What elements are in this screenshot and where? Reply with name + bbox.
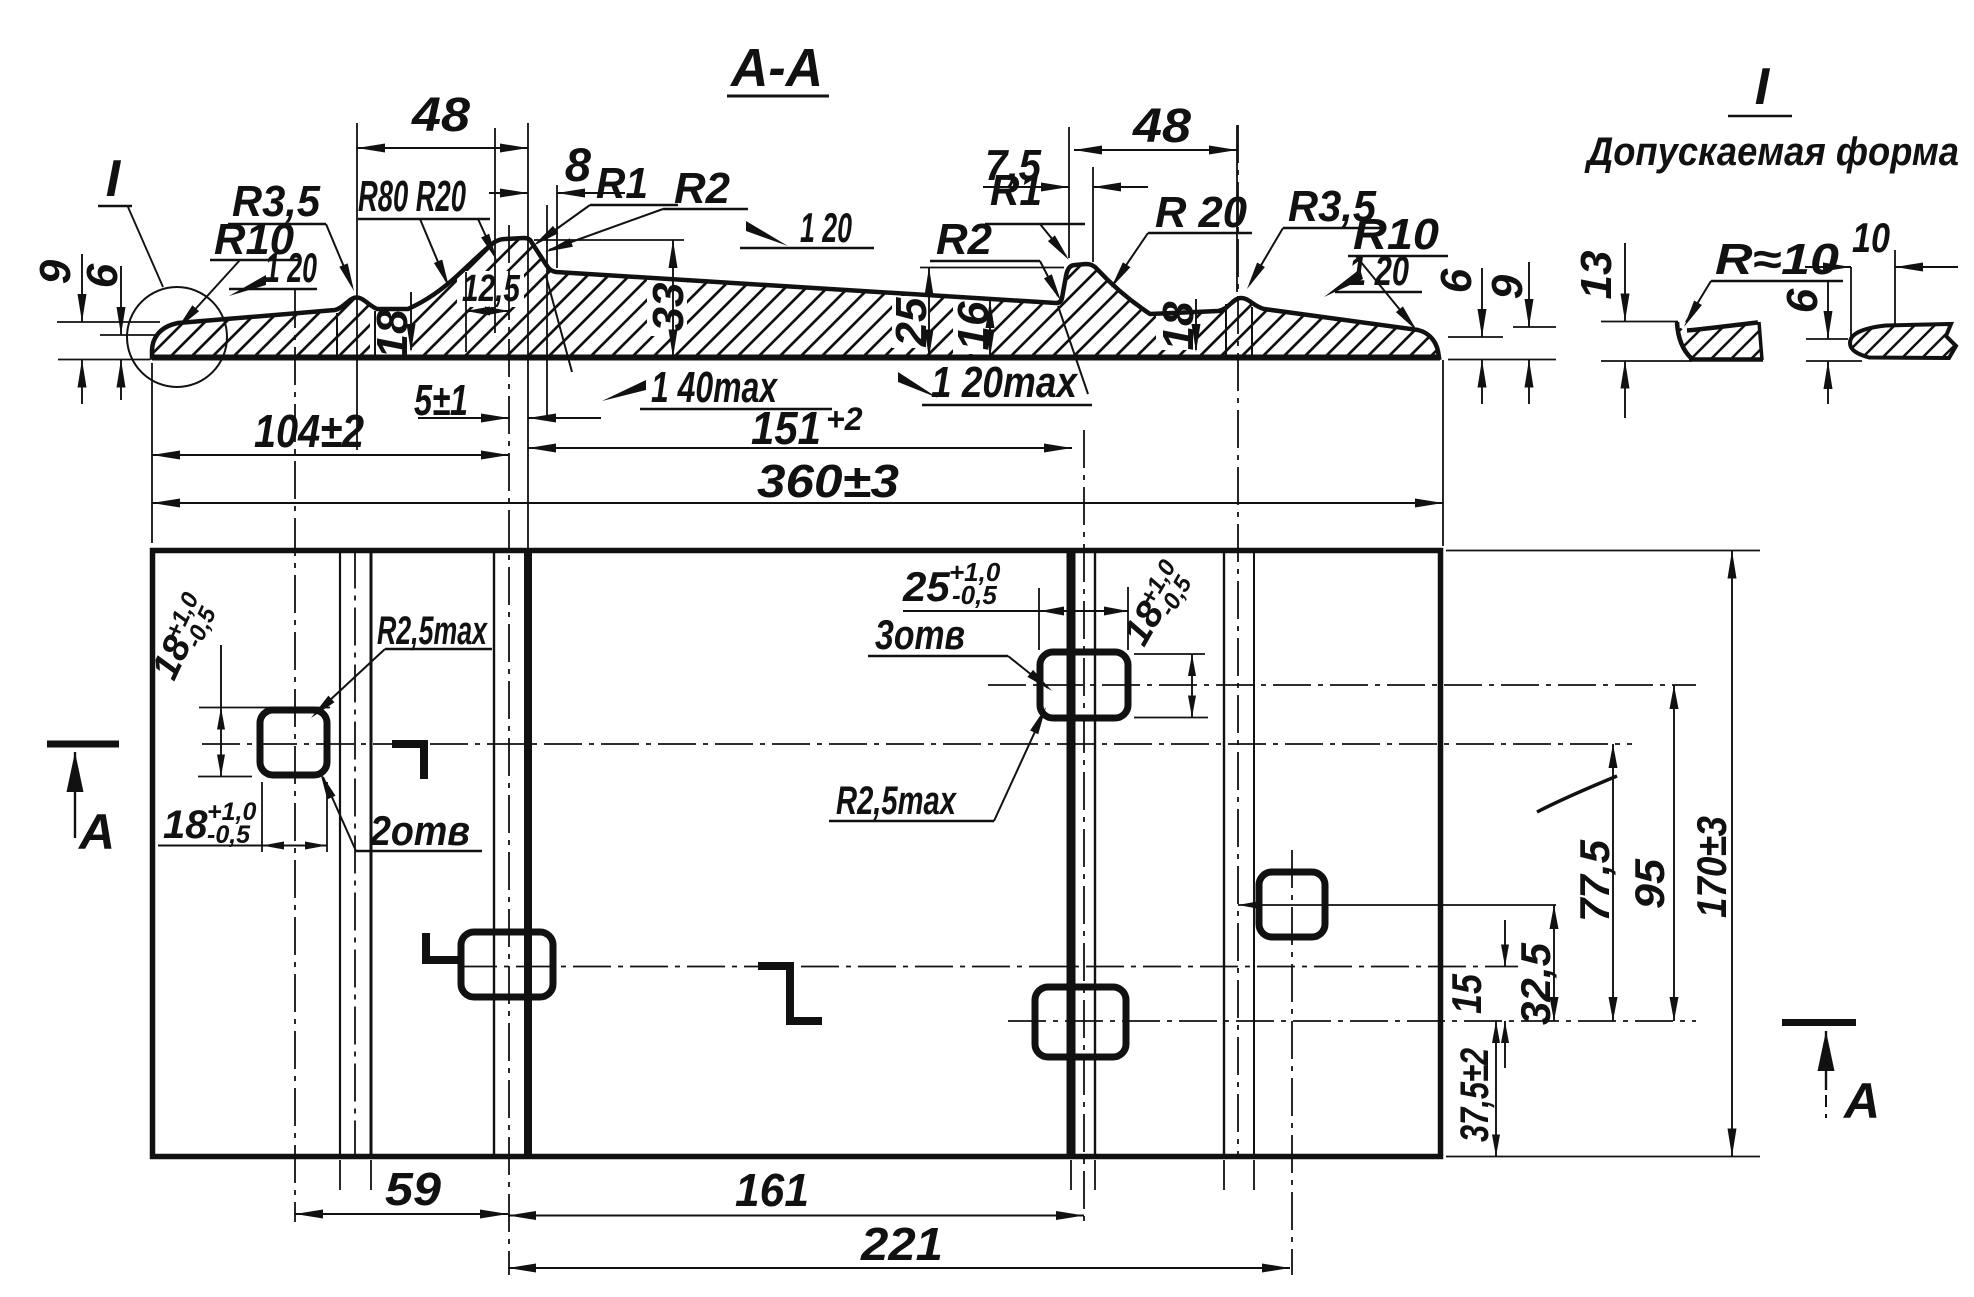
svg-text:16: 16 (949, 301, 998, 350)
dimension 18 right (1154, 299, 1203, 352)
svg-text:59: 59 (385, 1163, 441, 1215)
detail sketch 1 hatching (1610, 300, 1830, 380)
dimension 9 left (31, 254, 160, 404)
plan left bump line b (370, 551, 373, 1157)
dimension 104±2 (152, 405, 509, 460)
extension line right end (1442, 360, 1444, 546)
section groove edge lines left bump (337, 311, 375, 356)
plan left rib edge thick (524, 553, 532, 1157)
slope mark 1:20 rail seat (740, 204, 874, 251)
plan right bump centerline (1237, 125, 1239, 1157)
svg-text:6: 6 (1432, 268, 1481, 293)
svg-text:2отв: 2отв (369, 807, 470, 854)
svg-text:6: 6 (78, 263, 127, 288)
dimension 6 right (1432, 268, 1556, 404)
dimension 32,5 (1512, 905, 1559, 1025)
svg-text:-0,5: -0,5 (207, 821, 251, 849)
dimension 33 (534, 240, 693, 358)
hole B (461, 932, 553, 997)
svg-text:48: 48 (1132, 100, 1191, 153)
label R10 left (177, 215, 298, 329)
sketch1 dimension 13 (1572, 243, 1630, 418)
dimension 7,5 (983, 127, 1148, 262)
svg-text:R2,5max: R2,5max (836, 779, 957, 823)
plan right rib centerline (1083, 430, 1085, 1222)
hatch clearance boxes (370, 271, 1196, 358)
extension line crest right corner (527, 123, 529, 551)
label R2 right seat (930, 215, 1061, 301)
svg-text:13: 13 (1572, 251, 1621, 300)
section arrow A left (47, 744, 119, 860)
dimension 59 (295, 1163, 508, 1219)
section line step mark 1 (392, 744, 424, 779)
extension line crest left (494, 128, 496, 333)
dimension 8 (489, 138, 625, 268)
hole A centerline vertical (294, 290, 296, 1222)
slope mark 1:40max (546, 276, 832, 412)
sketch2 dimension 6 (1778, 280, 1862, 404)
hole A (260, 710, 327, 775)
svg-text:10: 10 (1852, 214, 1890, 261)
svg-text:18: 18 (163, 803, 208, 847)
svg-text:9: 9 (1483, 274, 1532, 299)
plan left bump centerline (354, 551, 356, 1157)
dimension 16 (949, 300, 998, 358)
svg-text:9: 9 (31, 259, 80, 284)
plan outline (153, 551, 1441, 1157)
svg-text:33: 33 (644, 283, 693, 332)
dimension 15 (1443, 920, 1509, 1068)
center row E (1238, 901, 1556, 909)
extension ticks below plan (340, 1160, 1254, 1190)
dimension 48 left (357, 89, 528, 153)
svg-text:18: 18 (368, 309, 417, 358)
section bottom edge (152, 355, 1440, 361)
title A-A (727, 38, 829, 98)
svg-text:12,5: 12,5 (462, 268, 521, 310)
label R1 right (985, 166, 1085, 260)
svg-text:1 20max: 1 20max (931, 358, 1078, 407)
svg-text:R1: R1 (990, 166, 1042, 215)
center row C (988, 684, 1696, 686)
svg-text:8: 8 (565, 138, 592, 191)
svg-text:А-А: А-А (729, 38, 823, 98)
dimension 170±3 (1446, 551, 1760, 1157)
svg-text:А: А (77, 804, 115, 860)
section arrow A right (1782, 1023, 1880, 1130)
dimension 95 (1626, 685, 1679, 1021)
label R10 right (1348, 210, 1448, 331)
hole C (1040, 652, 1128, 718)
plan left bump line a (339, 551, 341, 1157)
extension line bump crest left (356, 123, 358, 450)
extension line left end (151, 363, 153, 543)
plan left rib line a (493, 551, 495, 1157)
svg-text:+2: +2 (826, 401, 863, 437)
hole E (1259, 872, 1325, 937)
svg-text:3отв: 3отв (875, 611, 965, 658)
detail I title (1728, 58, 1792, 116)
section profile outline (152, 238, 1439, 358)
plan right rib line b (1094, 551, 1096, 1157)
dimension 25 (887, 268, 1064, 358)
svg-text:151: 151 (751, 402, 821, 454)
hole D (1035, 987, 1126, 1057)
svg-text:1 20: 1 20 (800, 204, 852, 251)
label R2,5max left (311, 609, 492, 718)
svg-text:R≈10: R≈10 (1715, 235, 1840, 284)
plan right bump line b (1253, 551, 1255, 1157)
svg-text:-0,5: -0,5 (952, 580, 997, 610)
section line step mark 2 (426, 933, 459, 960)
svg-text:R80 R20: R80 R20 (358, 172, 466, 221)
svg-text:R2: R2 (674, 164, 731, 213)
sketch2 dimension 10 (1805, 214, 1958, 341)
dimension 12,5 (462, 268, 521, 352)
dimension 360±3 (152, 455, 1443, 508)
dimension 25 hole C (902, 557, 1128, 650)
section line step mark 3 (758, 966, 822, 1021)
dimension 37,5±2 (1453, 1021, 1500, 1157)
center row A (202, 743, 1632, 745)
dimension 161 (508, 1164, 1084, 1220)
center row B (459, 966, 1518, 968)
label R2,5max right (829, 707, 1046, 823)
dimension 77,5 (1571, 744, 1618, 1021)
leader stroke near 77,5 (1537, 776, 1617, 812)
svg-text:А: А (1842, 1073, 1880, 1129)
svg-text:1 20: 1 20 (265, 244, 317, 291)
svg-text:Допускаемая форма: Допускаемая форма (1584, 130, 1959, 174)
hole E centerline vertical (1291, 850, 1293, 1275)
label R80 R20 (358, 172, 497, 287)
svg-text:37,5±2: 37,5±2 (1453, 1048, 1497, 1142)
section A-A hatching (0, 225, 1604, 380)
svg-text:25: 25 (887, 297, 936, 347)
slope mark 1:20 right tail (1324, 247, 1422, 297)
dimension 5±1 (414, 376, 601, 425)
detail sketch 1 profile (1601, 322, 1763, 362)
dimension 9 right (1483, 262, 1556, 404)
svg-text:25: 25 (902, 563, 950, 610)
section groove edge lines right bump (1226, 304, 1252, 356)
label R3,5 left (228, 177, 354, 291)
label R3,5 right (1247, 182, 1382, 289)
svg-text:360±3: 360±3 (757, 455, 899, 507)
dimension 151+2 (528, 401, 1072, 454)
svg-text:5±1: 5±1 (414, 376, 468, 425)
label R2 left (545, 164, 748, 252)
dimension 18 hole C (1115, 555, 1208, 718)
svg-text:R2: R2 (936, 215, 993, 264)
svg-text:170±3: 170±3 (1688, 816, 1735, 918)
label R1 left (533, 159, 678, 246)
label 3отв (868, 611, 1052, 691)
dimension 18 vertical hole A (143, 588, 330, 777)
extension line seat corner (546, 205, 548, 420)
svg-text:1 20: 1 20 (1349, 247, 1409, 294)
svg-text:77,5: 77,5 (1571, 839, 1618, 922)
dimension 221 (508, 1218, 1290, 1273)
svg-text:18: 18 (1154, 301, 1203, 350)
svg-text:15: 15 (1443, 973, 1490, 1014)
svg-text:95: 95 (1626, 858, 1673, 909)
dimension 6 left (78, 263, 158, 400)
plan left rib centerline (508, 225, 510, 1275)
detail sketch 2 hatching (1800, 300, 1974, 380)
label 2отв (320, 772, 482, 854)
sketch1 label R≈10 (1684, 235, 1843, 327)
dimension 18 left (368, 292, 417, 358)
svg-text:6: 6 (1778, 288, 1827, 313)
svg-text:48: 48 (411, 89, 470, 142)
svg-text:R1: R1 (596, 159, 648, 208)
svg-text:I: I (106, 150, 122, 208)
slope mark 1:20 left tail (229, 244, 317, 296)
svg-text:221: 221 (860, 1218, 943, 1270)
plan right bump line a (1223, 551, 1225, 1157)
detail I callout circle (98, 150, 227, 387)
svg-text:R2,5max: R2,5max (377, 609, 488, 653)
svg-text:I: I (1755, 58, 1771, 116)
svg-text:32,5: 32,5 (1512, 942, 1559, 1025)
svg-text:R 20: R 20 (1155, 188, 1248, 237)
detail sketch 2 profile (1850, 324, 1956, 358)
label R20 right (1111, 188, 1252, 288)
plan right rib edge thick (1067, 551, 1076, 1157)
slope mark 1:20max (898, 306, 1092, 407)
svg-text:104±2: 104±2 (254, 405, 364, 457)
dimension 48 right (1074, 100, 1237, 292)
svg-text:161: 161 (735, 1164, 809, 1216)
center row D (1008, 1020, 1696, 1022)
dimension 18 horizontal hole A (158, 782, 327, 852)
